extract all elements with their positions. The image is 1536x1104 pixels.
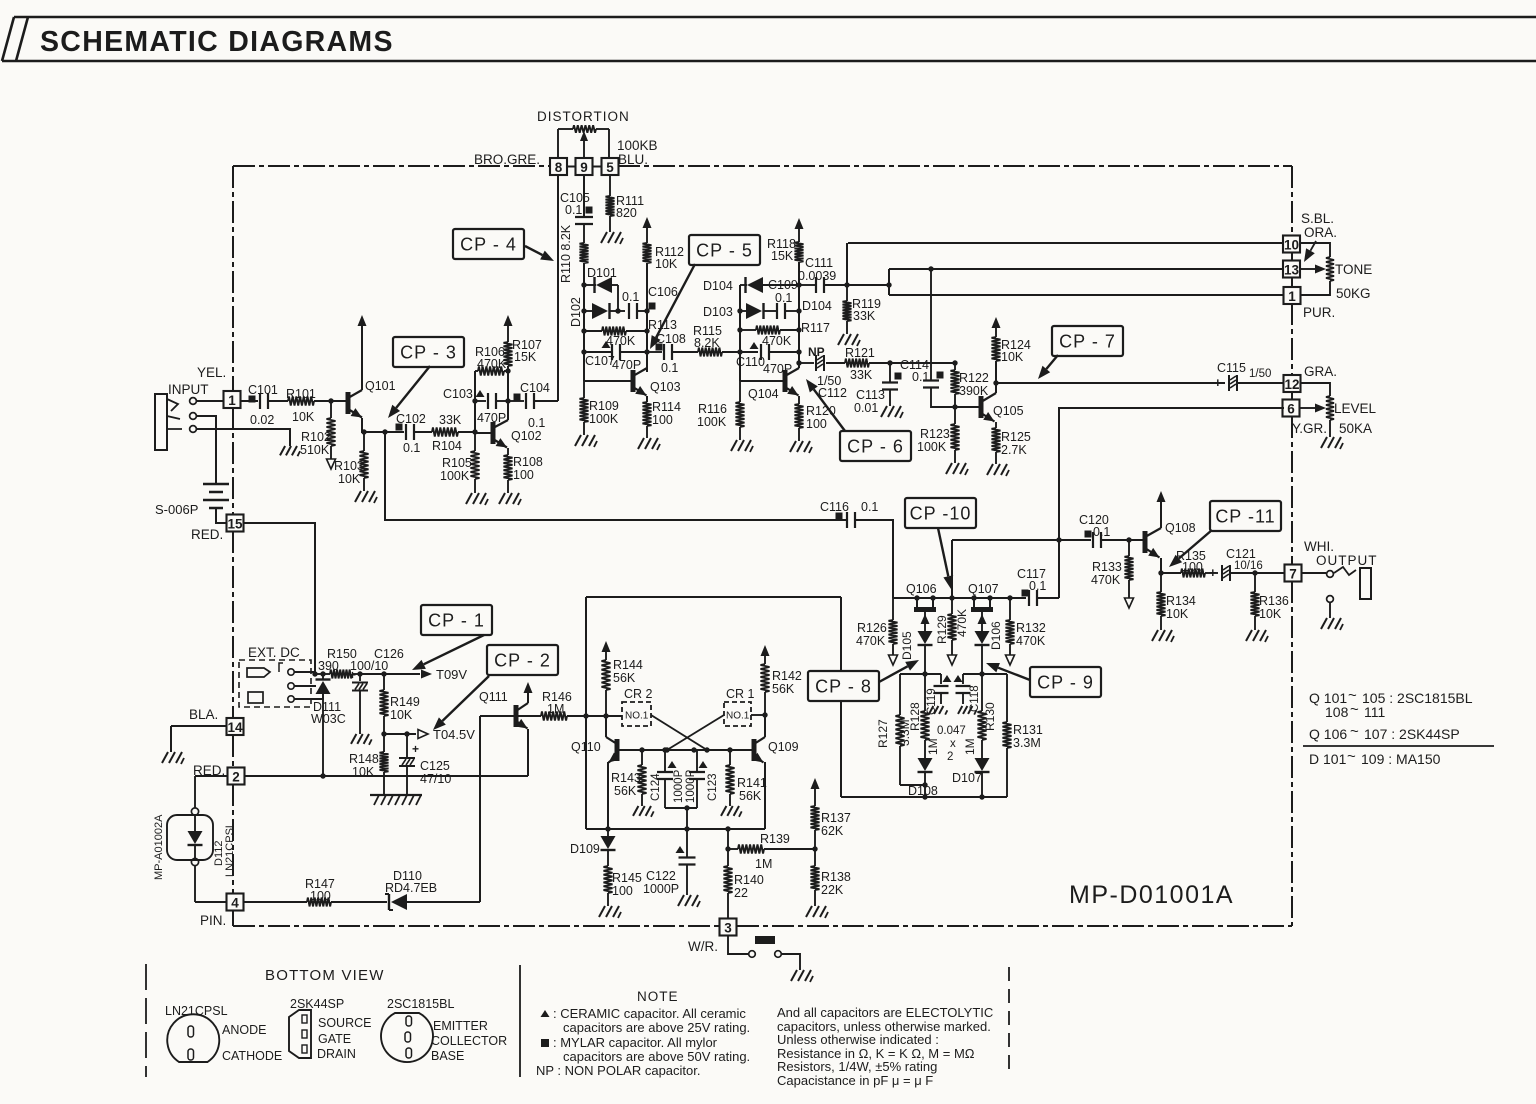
svg-text:+: + [1209, 565, 1217, 580]
neon CR2 [622, 687, 653, 726]
svg-text:50KA: 50KA [1339, 421, 1372, 436]
svg-text:22: 22 [734, 886, 748, 900]
ground [838, 334, 860, 346]
svg-text:D105: D105 [900, 631, 914, 660]
svg-text:Q105: Q105 [993, 404, 1024, 418]
resistor R114 100 [643, 400, 682, 438]
wire [996, 382, 1225, 384]
ground [678, 895, 700, 907]
capacitor C103 470P [443, 387, 508, 425]
wire [619, 747, 752, 752]
board boundary left column [232, 166, 234, 926]
capacitor C124 1000P [650, 750, 685, 808]
svg-text:ORA.: ORA. [1304, 225, 1337, 240]
svg-text:~: ~ [1347, 748, 1356, 765]
svg-text:OUTPUT: OUTPUT [1316, 553, 1378, 568]
svg-text:R130: R130 [983, 702, 997, 731]
label T09V arrow [421, 667, 467, 682]
ground [1246, 630, 1268, 642]
svg-text:0.1: 0.1 [661, 361, 678, 375]
svg-text:109 : MA150: 109 : MA150 [1361, 751, 1441, 767]
transistor Q102 [475, 420, 542, 448]
resistor R101 10K [286, 387, 346, 424]
wire [294, 685, 316, 687]
wire [171, 726, 226, 752]
ground [946, 463, 968, 475]
svg-text:C106: C106 [648, 285, 678, 299]
wire [557, 175, 559, 401]
resistor R130 1M [963, 674, 997, 758]
transistor Q106 [906, 582, 937, 631]
svg-text:108: 108 [1325, 704, 1349, 720]
connector 1 input [224, 391, 241, 408]
svg-text:10: 10 [1284, 238, 1299, 253]
label BLA. [189, 707, 218, 722]
svg-text:C122: C122 [646, 869, 676, 883]
svg-text:7: 7 [1289, 567, 1297, 582]
label T04.5V arrow [418, 727, 475, 742]
table 108-111 [1325, 701, 1385, 720]
svg-text:D104: D104 [703, 279, 733, 293]
svg-text:0.02: 0.02 [250, 413, 274, 427]
capacitor C118 0.047 [954, 674, 982, 712]
ground [633, 806, 654, 817]
resistor R141 56K [726, 750, 767, 806]
svg-text:C121: C121 [1226, 547, 1256, 561]
transistor Q109 [752, 715, 798, 829]
ground [1152, 630, 1174, 642]
transistor Q111 [479, 682, 533, 776]
svg-text:10K: 10K [292, 410, 315, 424]
ground [466, 493, 488, 505]
CP-7 box [1052, 326, 1123, 356]
wire [665, 805, 697, 829]
svg-text:W03C: W03C [311, 712, 346, 726]
svg-text:1M: 1M [547, 702, 564, 716]
svg-text:NP : NON POLAR capacitor.: NP : NON POLAR capacitor. [536, 1063, 701, 1078]
svg-text:R139: R139 [760, 832, 790, 846]
CP-6 box [840, 431, 911, 461]
resistor R132 470K [1006, 598, 1046, 665]
svg-text:111: 111 [1364, 704, 1385, 720]
wire [586, 826, 765, 831]
label PUR. [1303, 305, 1335, 320]
capacitor C115 1/50 [1214, 361, 1284, 391]
diode D106 [975, 621, 1004, 674]
svg-text:62K: 62K [821, 824, 844, 838]
svg-text:EMITTER: EMITTER [433, 1019, 488, 1033]
svg-text:0.1: 0.1 [622, 290, 639, 304]
wire [360, 671, 420, 676]
svg-text:4: 4 [231, 896, 239, 911]
label INPUT [168, 382, 209, 397]
resistor R124 10K [992, 317, 1031, 393]
svg-text:2.7K: 2.7K [1001, 443, 1027, 457]
CP-10 box [905, 498, 976, 528]
label BRO.GRE. [474, 152, 540, 167]
svg-text:Q111: Q111 [479, 690, 508, 704]
diode D109 [570, 829, 616, 866]
potentiometer TONE 50KG [1300, 243, 1334, 295]
resistor R127 3.3M [876, 674, 912, 785]
CP-8 box [808, 671, 879, 701]
svg-text:C104: C104 [520, 381, 550, 395]
svg-text:ANODE: ANODE [222, 1023, 266, 1037]
svg-text:COLLECTOR: COLLECTOR [431, 1034, 507, 1048]
connector 9 [576, 158, 593, 175]
capacitor C114 0.1 [895, 266, 954, 407]
CP-11 arrow [1169, 530, 1212, 567]
resistor R113 470K [584, 318, 677, 348]
svg-text:1000P: 1000P [643, 882, 679, 896]
resistor R133 470K [1091, 540, 1134, 608]
svg-text:BASE: BASE [431, 1049, 464, 1063]
svg-text:Unless otherwise indicated :: Unless otherwise indicated : [777, 1032, 939, 1047]
diode D108 [908, 758, 938, 798]
transistor Q107 [968, 582, 999, 631]
svg-text:R123: R123 [920, 427, 950, 441]
svg-text:R132: R132 [1016, 621, 1046, 635]
capacitor C113 0.01 [854, 363, 898, 415]
svg-text:510K: 510K [300, 443, 330, 457]
svg-text:100K: 100K [917, 440, 947, 454]
svg-text:390K: 390K [959, 384, 989, 398]
resistor R116 100K [697, 381, 745, 440]
svg-text:R110 8.2K: R110 8.2K [559, 224, 573, 283]
svg-text:R117: R117 [801, 321, 830, 335]
package 2SK44SP [289, 997, 371, 1061]
svg-text:SCHEMATIC DIAGRAMS: SCHEMATIC DIAGRAMS [40, 26, 394, 58]
svg-text:R136: R136 [1259, 594, 1289, 608]
capacitor C110 470P [736, 342, 799, 376]
output jack [1302, 567, 1371, 618]
label OUTPUT [1316, 553, 1378, 568]
svg-text:D103: D103 [703, 305, 733, 319]
capacitor C111 0.0039 [798, 256, 889, 293]
connector 10 [1283, 236, 1300, 253]
svg-text:Q103: Q103 [650, 380, 681, 394]
svg-text:3: 3 [724, 921, 732, 936]
svg-text:R128: R128 [908, 702, 922, 731]
big ground [370, 795, 422, 805]
connector 13 [1283, 261, 1300, 278]
connector 12 [1284, 375, 1301, 392]
svg-text:Q104: Q104 [748, 387, 779, 401]
resistor R142 56K [761, 645, 802, 715]
wire [196, 400, 224, 402]
svg-text:CP -11: CP -11 [1215, 507, 1275, 527]
svg-text:50KG: 50KG [1336, 286, 1371, 301]
svg-text:0.01: 0.01 [854, 401, 878, 415]
ground [806, 906, 828, 918]
resistor R143 56K [611, 750, 647, 806]
svg-text:14: 14 [227, 720, 243, 735]
svg-text:1000P: 1000P [673, 769, 685, 803]
svg-text:33K: 33K [850, 368, 873, 382]
svg-text:R108: R108 [513, 455, 543, 469]
label W/R. [688, 939, 718, 954]
label ORA. [1304, 225, 1337, 240]
svg-text:D101: D101 [587, 266, 617, 280]
resistor R107 15K [504, 315, 542, 420]
svg-text:LEVEL: LEVEL [1334, 401, 1377, 416]
svg-text:C125: C125 [420, 759, 450, 773]
resistor R148 10K [349, 734, 389, 795]
svg-text:C112: C112 [818, 386, 847, 400]
connector 8 [550, 158, 567, 175]
legend separator left [145, 964, 147, 1077]
svg-text:1M: 1M [926, 738, 940, 755]
svg-text:R103: R103 [334, 459, 364, 473]
svg-text:0.1: 0.1 [403, 441, 420, 455]
svg-text:100K: 100K [697, 415, 727, 429]
svg-text:Capacistance in pF μ = μ F: Capacistance in pF μ = μ F [777, 1073, 933, 1088]
svg-text:~: ~ [1350, 701, 1359, 718]
svg-text:YEL.: YEL. [197, 365, 226, 380]
wire [952, 540, 1091, 598]
svg-text:0.1: 0.1 [775, 291, 792, 305]
resistor R137 62K [811, 778, 851, 849]
svg-text:Q106: Q106 [906, 582, 937, 596]
wire [886, 269, 891, 295]
svg-text:2SC1815BL: 2SC1815BL [387, 997, 454, 1011]
connector 1 [1284, 287, 1301, 304]
svg-text:CP - 9: CP - 9 [1037, 673, 1094, 693]
label Y.GR. [1292, 421, 1327, 436]
svg-text:D104: D104 [802, 299, 832, 313]
svg-text:6: 6 [1287, 402, 1295, 417]
svg-text:15K: 15K [514, 350, 537, 364]
svg-text:R142: R142 [772, 669, 802, 683]
transistor Q103 [633, 368, 681, 396]
svg-text:10K: 10K [390, 708, 413, 722]
svg-text:R138: R138 [821, 870, 851, 884]
resistor R146 1M [514, 690, 622, 721]
resistor R149 10K [380, 674, 420, 734]
capacitor C112 NP 1/50 [799, 345, 847, 400]
label MP-D01001A [1069, 881, 1234, 909]
svg-text:C123: C123 [707, 774, 719, 802]
svg-text:R127: R127 [876, 719, 890, 748]
wire [846, 243, 848, 285]
svg-text:R148: R148 [349, 752, 379, 766]
svg-text:R114: R114 [652, 400, 681, 414]
ground [355, 491, 377, 503]
svg-text:0.1: 0.1 [861, 500, 878, 514]
svg-text:PIN.: PIN. [200, 913, 226, 928]
svg-text:100: 100 [513, 468, 534, 482]
transistor Q108 [1145, 521, 1196, 558]
wire [840, 597, 842, 797]
resistor R103 10K [334, 432, 369, 491]
svg-text:56K: 56K [772, 682, 795, 696]
diode D107 [952, 758, 990, 797]
svg-text:R125: R125 [1001, 430, 1031, 444]
svg-text:R102: R102 [301, 430, 331, 444]
wire [195, 901, 226, 903]
svg-text:BRO.GRE.: BRO.GRE. [474, 152, 540, 167]
svg-text:: MYLAR capacitor. All mylor: : MYLAR capacitor. All mylor [553, 1035, 718, 1050]
label LEVEL [1334, 401, 1377, 416]
ext dc jack [239, 660, 311, 707]
resistor R131 3.3M [1003, 674, 1043, 797]
wire [581, 263, 586, 381]
svg-text:C113: C113 [856, 388, 885, 402]
resistor R109 100K [580, 381, 619, 435]
capacitor C109 0.1 [768, 278, 832, 319]
svg-text:R105: R105 [442, 456, 472, 470]
wire [381, 731, 416, 736]
svg-text:R137: R137 [821, 811, 851, 825]
CP-2 box [487, 645, 558, 675]
svg-text:CP - 7: CP - 7 [1059, 332, 1116, 352]
diode D102 [569, 297, 625, 327]
label GRA. [1304, 364, 1337, 379]
wire [737, 285, 742, 381]
svg-text:100: 100 [612, 884, 633, 898]
svg-text:T04.5V: T04.5V [433, 727, 475, 742]
svg-text:NP: NP [808, 345, 825, 359]
svg-text:8.2K: 8.2K [694, 336, 720, 350]
svg-text:1: 1 [1288, 289, 1296, 304]
svg-text:Q101: Q101 [365, 379, 396, 393]
connector 7 [1285, 565, 1302, 582]
resistor R144 56K [602, 641, 643, 716]
resistor R121 33K [826, 346, 955, 382]
svg-text:C111: C111 [805, 256, 833, 270]
diode D110 RD4.7EB [385, 869, 480, 910]
svg-text:R101: R101 [286, 387, 316, 401]
svg-text:470K: 470K [477, 357, 507, 371]
svg-text:CR 2: CR 2 [624, 687, 653, 701]
capacitor C105 0.1 [560, 191, 593, 224]
wire [1304, 241, 1316, 262]
resistor R129 470K [935, 598, 969, 665]
wire [751, 712, 768, 717]
transistor Q105 [981, 393, 1024, 422]
svg-text:100KB: 100KB [617, 138, 658, 153]
svg-text:D107: D107 [952, 771, 982, 785]
svg-text:C109: C109 [768, 278, 798, 292]
wire [583, 597, 588, 719]
wire [479, 716, 481, 902]
capacitor C104 0.1 [508, 381, 558, 430]
svg-text:1000P: 1000P [685, 769, 697, 803]
svg-text:CP - 8: CP - 8 [815, 677, 872, 697]
svg-text:10K: 10K [1166, 607, 1189, 621]
resistor R126 470K [856, 598, 898, 665]
wire [244, 523, 316, 674]
resistor R125 2.7K [992, 422, 1031, 464]
svg-text:100: 100 [1182, 560, 1203, 574]
wire [361, 418, 404, 435]
svg-text:GATE: GATE [318, 1032, 351, 1046]
ground [791, 970, 813, 982]
resistor R147 100 [244, 877, 387, 907]
diode D101 [584, 266, 618, 293]
svg-text:DISTORTION: DISTORTION [537, 109, 630, 124]
wire [740, 380, 783, 382]
svg-text:390: 390 [318, 659, 339, 673]
svg-text:10K: 10K [655, 257, 678, 271]
resistor R128 1M [908, 674, 940, 758]
svg-text:0.1: 0.1 [528, 416, 545, 430]
ground [881, 406, 903, 418]
wire [841, 794, 1007, 799]
svg-text:D106: D106 [989, 621, 1003, 650]
resistor R115 8.2K [672, 324, 740, 357]
svg-text:R145: R145 [612, 871, 642, 885]
svg-text:C102: C102 [396, 412, 426, 426]
svg-text:CATHODE: CATHODE [222, 1049, 282, 1063]
svg-text:12: 12 [1284, 377, 1299, 392]
capacitor C101 0.02 [240, 383, 288, 427]
ground [162, 752, 184, 764]
svg-text:CP - 5: CP - 5 [696, 241, 753, 261]
label WHI. [1304, 539, 1334, 554]
svg-text:R133: R133 [1092, 560, 1122, 574]
package 2SC1815BL [381, 997, 507, 1063]
connector 4 [227, 894, 244, 911]
capacitor C107 470P [584, 341, 647, 372]
wire [900, 671, 1007, 676]
svg-text:100: 100 [652, 413, 673, 427]
label 50KG [1336, 286, 1371, 301]
svg-text:R141: R141 [737, 776, 767, 790]
svg-text:WHI.: WHI. [1304, 539, 1334, 554]
svg-text:CP - 2: CP - 2 [494, 651, 551, 671]
resistor R123 100K [917, 407, 960, 463]
svg-text:Q 106: Q 106 [1309, 726, 1347, 742]
CP-11 box [1210, 501, 1281, 531]
svg-text:~: ~ [1350, 723, 1359, 740]
svg-text:R121: R121 [845, 346, 875, 360]
svg-text:And all capacitors are ELECTOL: And all capacitors are ELECTOLYTIC [777, 1005, 993, 1020]
table D101-109 [1309, 748, 1441, 767]
CP-7 arrow [1038, 355, 1058, 379]
svg-text:10/16: 10/16 [1234, 560, 1263, 572]
transistor Q104 [748, 368, 799, 401]
resistor R122 390K [951, 360, 989, 409]
connector 15 [227, 515, 244, 532]
svg-text:820: 820 [616, 206, 637, 220]
svg-text:10K: 10K [1001, 350, 1024, 364]
svg-text:LN21CPSL: LN21CPSL [224, 822, 236, 877]
table Q101-105 [1309, 687, 1473, 706]
ground [351, 734, 372, 745]
CP-4 box [453, 229, 524, 259]
svg-text:CP - 4: CP - 4 [460, 235, 517, 255]
connector 6 [1283, 400, 1300, 417]
svg-text:0.047: 0.047 [937, 725, 966, 737]
transistor Q110 [571, 716, 620, 829]
resistor R145 100 [604, 866, 642, 906]
svg-text:0.0039: 0.0039 [798, 269, 836, 283]
wire [586, 596, 841, 598]
wire [196, 429, 290, 446]
input jack [155, 394, 196, 450]
svg-text:1M: 1M [755, 857, 772, 871]
svg-text:9: 9 [580, 160, 588, 175]
label 0.047 x2 [937, 725, 966, 763]
diode D104 [703, 277, 799, 293]
ground [499, 493, 521, 505]
capacitor C126 100/10 [349, 647, 404, 734]
board boundary top-right bus [618, 165, 1292, 167]
ground [790, 441, 812, 453]
svg-text:DRAIN: DRAIN [317, 1047, 356, 1061]
footswitch [728, 936, 800, 970]
